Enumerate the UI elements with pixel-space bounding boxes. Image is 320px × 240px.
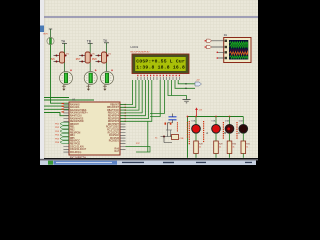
svg-text:OSC2/CLKOUT: OSC2/CLKOUT [70, 149, 87, 151]
svg-text:C: C [238, 131, 240, 135]
terminal net labels [55, 124, 60, 145]
svg-text:47k: 47k [66, 53, 69, 55]
svg-text:RB6/PGC: RB6/PGC [70, 141, 80, 143]
ground symbol under LCD [183, 100, 191, 103]
wire T K down [106, 43, 108, 72]
svg-text:47k: 47k [108, 53, 111, 55]
osc wires to chip [126, 147, 151, 153]
LED D3 (dim) [225, 125, 234, 134]
vertical net label column 3 [223, 122, 224, 139]
sheet border top line [44, 16, 258, 18]
vertical net label column 4 [236, 122, 237, 139]
svg-text:RB2: RB2 [70, 130, 75, 132]
svg-text:RB5: RB5 [70, 138, 75, 140]
thermometer TH1 [60, 72, 73, 85]
LED D4 wire bottom [242, 133, 244, 141]
svg-text:RB2/TX/CK: RB2/TX/CK [107, 110, 119, 112]
svg-text:RA2/AN2/VREF-: RA2/AN2/VREF- [70, 109, 87, 112]
U1 right pin junction dots [124, 104, 126, 122]
svg-text:RC0/T1OSO: RC0/T1OSO [106, 127, 119, 129]
cap wires [168, 114, 173, 131]
cap vertical red label [177, 122, 178, 131]
LED D2 wire bottom [215, 133, 217, 141]
taskbar active item [54, 161, 118, 165]
svg-text:RB7/PGD: RB7/PGD [70, 144, 80, 146]
resistor R28 [194, 141, 204, 154]
LED D3 wire top [229, 117, 231, 125]
svg-text:C1B: C1B [180, 138, 185, 140]
svg-text:RA7: RA7 [115, 150, 120, 153]
svg-text:RC3/SCK: RC3/SCK [109, 135, 119, 137]
svg-text:RC5/SDO: RC5/SDO [109, 141, 119, 143]
pin stub marks [166, 130, 172, 135]
vertical net label ПЕРЕГРЕВ ТЭНА [187, 121, 190, 144]
resistor R30 [227, 141, 237, 154]
scrollbar thumb [40, 26, 44, 33]
svg-text:TK: TK [103, 39, 108, 43]
svg-text:RB4: RB4 [70, 135, 75, 137]
svg-text:D2A: D2A [212, 119, 217, 122]
LCD pin numbers row [137, 75, 180, 76]
resistor R29 [214, 141, 224, 154]
ground terminal below TH3 [103, 85, 107, 91]
svg-text:RA0/AN0: RA0/AN0 [70, 103, 80, 106]
net label marks at analog pins [62, 103, 65, 113]
crystal junction dot [163, 136, 165, 138]
crystal X1 body [155, 135, 184, 141]
LED D2 (lit red) [212, 125, 221, 134]
rail junction dots [187, 116, 231, 118]
wire T B down [89, 43, 91, 71]
bus wire to crystal [147, 121, 149, 152]
taskbar text blobs [56, 162, 252, 163]
resistor R29 wire [215, 154, 217, 158]
crystal wires [161, 135, 173, 143]
potentiometer RV7 [76, 52, 95, 63]
svg-text:RA1/AN1: RA1/AN1 [70, 106, 80, 109]
rail power terminal +5V [195, 107, 203, 116]
svg-text:RB0/INT: RB0/INT [70, 124, 79, 126]
resistor R31 [241, 141, 251, 154]
svg-text:RD6/PSP6: RD6/PSP6 [108, 121, 120, 123]
svg-text:D4A: D4A [239, 119, 244, 122]
microcontroller U1 PIC16F877A [64, 102, 126, 155]
taskbar strip [40, 160, 256, 165]
potentiometer RV8 [92, 52, 111, 63]
svg-text:RD7/PSP7: RD7/PSP7 [108, 124, 120, 126]
wire junction dots under LCD [185, 83, 187, 89]
oscilloscope display module [224, 38, 251, 63]
svg-text:MCLR/Vpp: MCLR/Vpp [70, 152, 82, 154]
svg-text:RC4/SDI: RC4/SDI [110, 138, 119, 140]
svg-text:RD4/PSP4: RD4/PSP4 [108, 116, 120, 118]
inter-sheet terminal arrows on RB pins [60, 122, 69, 144]
LCD pin stubs [138, 77, 180, 80]
TH3 adjust mark [111, 69, 113, 71]
TH1 adjust mark [70, 69, 72, 71]
schematic sheet background [44, 0, 258, 158]
LED D1 wire top [195, 117, 197, 125]
svg-text:1:39.8 18.8 16.8: 1:39.8 18.8 16.8 [136, 65, 185, 71]
svg-text:RV7: RV7 [76, 58, 81, 61]
svg-text:1k: 1k [233, 147, 235, 149]
svg-text:RC1/T1OSI: RC1/T1OSI [107, 130, 119, 132]
resistor R31 wire [242, 154, 244, 158]
svg-text:B: B [224, 131, 226, 135]
vertical net label column 2 [203, 121, 204, 142]
svg-text:RB1/RX/DT: RB1/RX/DT [107, 107, 120, 109]
left scrollbar strip [40, 0, 44, 161]
svg-text:RA5/AN4/SS: RA5/AN4/SS [70, 117, 84, 120]
svg-text:1k: 1k [199, 147, 201, 149]
svg-text:TB: TB [87, 40, 92, 44]
scope pin dots [205, 40, 219, 59]
LED D4 wire top [242, 117, 244, 125]
LCD control wires down [150, 80, 195, 117]
svg-text:1k: 1k [219, 147, 221, 149]
LCD data bus staircase wires [120, 80, 152, 121]
svg-text:RV8: RV8 [92, 58, 97, 61]
thermometer TH2 [84, 72, 97, 85]
LED D4 (off) [239, 125, 248, 134]
svg-text:OSC1/CLKIN: OSC1/CLKIN [70, 146, 84, 148]
wire AN2 [44, 108, 69, 110]
LED D1 (lit red) [192, 125, 201, 134]
terminal label T K [103, 39, 109, 43]
svg-text:47k: 47k [92, 53, 95, 55]
tiny red marks above crystal [165, 123, 172, 125]
wire sensor0 down left [51, 45, 70, 104]
svg-text:LCD1: LCD1 [131, 45, 139, 49]
svg-text:D1: D1 [224, 33, 228, 37]
svg-text:D3A: D3A [225, 119, 230, 122]
power terminal arrow near LCD [195, 80, 202, 87]
LCD module LCD1 [132, 54, 189, 74]
wire AN3 step [44, 113, 69, 116]
TH2 adjust mark [95, 69, 97, 71]
svg-text:RA4/T0CKI: RA4/T0CKI [70, 115, 82, 118]
scope pin wires [212, 41, 225, 58]
LED supply rail [188, 117, 244, 158]
svg-text:COSP:+0.55 L Cur: COSP:+0.55 L Cur [136, 59, 185, 65]
svg-text:MCT2POUSDFLE2: MCT2POUSDFLE2 [131, 52, 151, 54]
terminal label T B [87, 40, 93, 44]
svg-text:A: A [206, 131, 208, 135]
svg-text:RB0/INT: RB0/INT [110, 104, 119, 106]
wire AN1 [44, 105, 69, 107]
resistor R30 wire [229, 154, 231, 158]
thermometer TH3 [101, 72, 114, 85]
wire T A down [64, 43, 66, 71]
LED D1 wire bottom [195, 133, 197, 141]
resistor R28 wire [195, 154, 197, 158]
start button fragment [48, 161, 53, 165]
svg-text:RB3/CCP1: RB3/CCP1 [108, 113, 120, 115]
svg-text:U1: U1 [72, 97, 76, 101]
svg-text:RE0/AN5/RD: RE0/AN5/RD [70, 120, 84, 123]
potentiometer RV6 [50, 52, 69, 63]
scope input terminal B [207, 45, 212, 48]
ground terminal below TH2 [86, 85, 90, 91]
svg-text:RC2/CCP1: RC2/CCP1 [108, 132, 120, 134]
ground terminal below TH1 [62, 85, 66, 91]
svg-text:RB3/PGM: RB3/PGM [70, 132, 80, 134]
scope input terminal A [207, 39, 212, 42]
thermometer TH0 [47, 37, 54, 44]
wire sensor1 to edge [44, 97, 69, 99]
LED D2 wire top [215, 117, 217, 125]
sensor TH0 wire [50, 29, 52, 38]
svg-text:RA6: RA6 [115, 147, 120, 150]
svg-text:D1A: D1A [192, 119, 197, 122]
LED D3 wire bottom [229, 133, 231, 141]
terminal label T A [61, 40, 67, 44]
wire sensor2 to edge [44, 99, 94, 101]
status bar seam [40, 159, 258, 161]
svg-text:1k: 1k [246, 147, 248, 149]
svg-text:RD5/PSP5: RD5/PSP5 [108, 118, 120, 120]
capacitor C1A plates [169, 117, 177, 120]
svg-text:RB1: RB1 [70, 127, 75, 129]
svg-text:RA3/AN3/VREF+: RA3/AN3/VREF+ [70, 112, 88, 115]
sheet border left edge [43, 0, 45, 158]
